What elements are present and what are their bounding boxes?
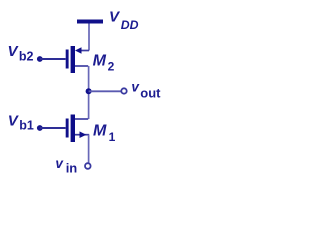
- svg-text:M: M: [93, 123, 107, 140]
- svg-text:DD: DD: [121, 18, 139, 32]
- label Vb2: [8, 43, 34, 63]
- label vin: [55, 156, 77, 176]
- label M2: [93, 53, 115, 74]
- wire VDD to M2 source: [88, 24, 90, 51]
- svg-text:V: V: [109, 8, 121, 25]
- node Vb1: dot and gate wire: [37, 125, 66, 131]
- wire vout: [89, 90, 121, 92]
- M1 gate bar: [66, 119, 69, 138]
- svg-text:1: 1: [109, 130, 116, 144]
- svg-text:M: M: [93, 53, 107, 70]
- label vout: [131, 79, 161, 100]
- svg-text:in: in: [66, 161, 78, 176]
- label VDD: [109, 8, 139, 32]
- label M1: [93, 123, 116, 144]
- wire M2 drain to vout node to M1 drain: [88, 66, 90, 119]
- transistor M1 (NMOS): [66, 115, 90, 143]
- svg-text:v: v: [55, 156, 64, 171]
- svg-text:v: v: [131, 79, 140, 94]
- svg-text:b2: b2: [19, 49, 34, 63]
- terminal vout open circle: [121, 88, 126, 93]
- M1 channel bar: [71, 115, 75, 143]
- M2 channel bar: [71, 46, 75, 73]
- M1 drain lead: [75, 118, 88, 120]
- node vout junction dot: [86, 88, 92, 94]
- svg-text:b1: b1: [19, 118, 34, 132]
- M2 drain lead: [75, 65, 88, 67]
- node Vb2: dot and gate wire: [37, 56, 66, 62]
- power rail VDD bar: [77, 20, 103, 24]
- svg-text:V: V: [8, 43, 20, 60]
- label Vb1: [8, 112, 34, 132]
- M2 source lead with arrow: [80, 50, 89, 52]
- svg-text:out: out: [140, 86, 161, 101]
- svg-text:2: 2: [108, 60, 115, 74]
- wire M1 source to vin: [88, 135, 90, 164]
- terminal vin open circle: [85, 163, 91, 169]
- M2 gate bar: [66, 50, 69, 69]
- transistor M2 (PMOS): [66, 46, 89, 73]
- svg-text:V: V: [8, 112, 20, 129]
- M1 source lead with arrow: [75, 134, 89, 136]
